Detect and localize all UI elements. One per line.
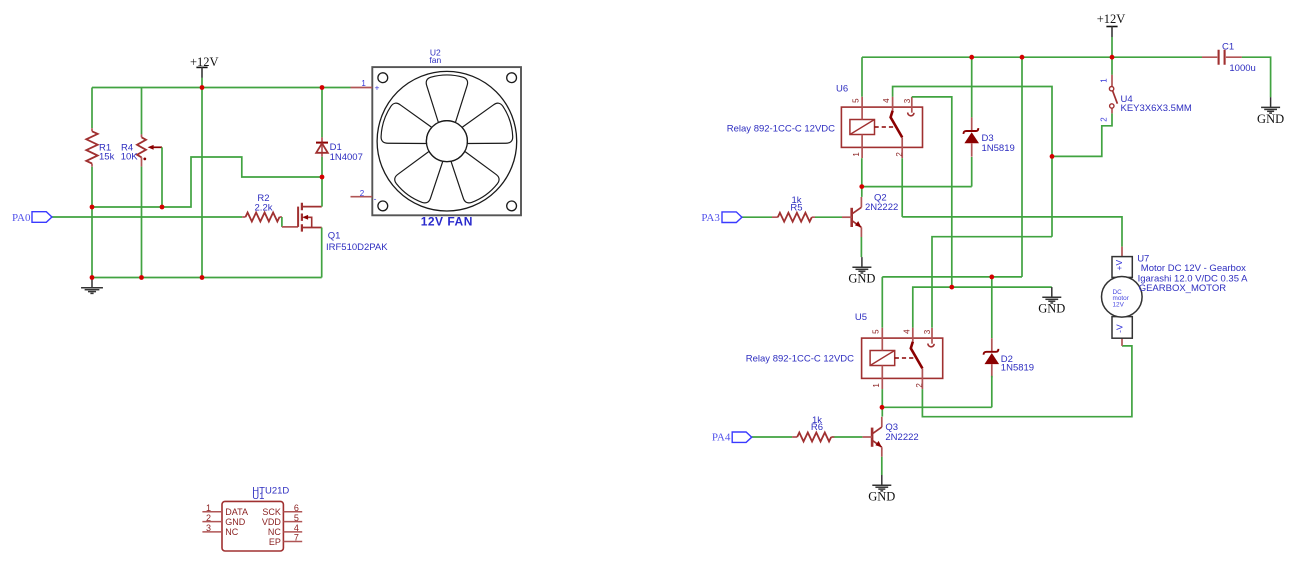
svg-text:PA3: PA3 [701,212,720,224]
ground [81,278,103,294]
junction [320,175,325,180]
wire [815,216,842,218]
wire [861,158,863,197]
wire [141,88,143,135]
wire [991,277,993,338]
svg-text:1N4007: 1N4007 [330,152,363,163]
svg-text:3: 3 [923,329,932,334]
svg-text:1: 1 [852,152,861,157]
label U6 value [727,124,835,135]
svg-text:1: 1 [1099,78,1108,83]
wire [1111,37,1113,75]
junction [90,205,95,210]
net flag PA3 [701,212,742,224]
wire [321,157,323,207]
label U5 [855,312,867,323]
wire [321,228,323,278]
svg-text:5: 5 [294,513,299,523]
svg-text:4: 4 [882,98,891,103]
svg-text:2: 2 [895,152,904,157]
junction [989,275,994,280]
junction [969,55,974,60]
wire [991,376,993,408]
junction [90,275,95,280]
junction [949,285,954,290]
svg-text:3: 3 [206,523,211,533]
svg-text:Q1: Q1 [328,231,341,242]
diode D2 [984,338,1034,377]
svg-text:VDD: VDD [262,517,282,527]
resistor R5 [772,195,815,222]
relay U5 [862,328,943,389]
svg-text:6: 6 [294,503,299,513]
svg-text:PA0: PA0 [12,212,31,224]
svg-text:R5: R5 [790,202,802,213]
svg-text:-V: -V [1115,324,1125,333]
potentiometer R4 [121,134,162,166]
label U6 [836,84,848,95]
wire [913,287,1052,328]
svg-text:2N2222: 2N2222 [885,432,918,443]
junction [160,205,165,210]
svg-text:GEARBOX_MOTOR: GEARBOX_MOTOR [1139,283,1227,294]
svg-text:15k: 15k [99,152,115,163]
wire [281,217,283,227]
wire [932,237,1052,328]
wire [752,436,792,438]
power +12V [190,55,219,78]
svg-text:5: 5 [851,98,860,103]
svg-text:+12V: +12V [1097,12,1126,26]
diode D3 [963,117,1014,156]
wire [901,158,903,217]
svg-text:+: + [375,82,380,92]
svg-text:GND: GND [848,272,875,286]
svg-text:Motor DC 12V - Gearbox: Motor DC 12V - Gearbox [1141,263,1246,274]
junction [880,405,885,410]
svg-text:7: 7 [294,533,299,543]
wire [862,186,972,188]
svg-text:U1: U1 [252,491,264,502]
svg-text:KEY3X6X3.5MM: KEY3X6X3.5MM [1121,103,1192,114]
svg-text:C1: C1 [1222,42,1234,53]
wire [91,167,93,278]
resistor R1 [86,128,114,167]
svg-text:fan: fan [429,55,441,65]
junction [320,85,325,90]
wire [893,87,1052,237]
wire [971,157,973,187]
svg-text:NC: NC [225,527,238,537]
svg-text:GND: GND [868,490,895,504]
ground GND (C1) [1261,97,1280,113]
net flag PA0 [12,212,52,224]
wire [1052,113,1112,156]
wire [92,87,351,89]
svg-text:2: 2 [206,513,211,523]
wire [881,389,883,417]
wire [881,277,883,328]
svg-text:1N5819: 1N5819 [982,143,1015,154]
label U5 value [746,353,854,364]
junction [200,85,205,90]
transistor Q1 [282,203,388,253]
motor U7 [1102,247,1249,346]
svg-text:PA4: PA4 [712,432,731,444]
wire [881,457,883,475]
wire [971,57,973,117]
svg-text:R6: R6 [811,422,823,433]
wire [860,237,862,257]
svg-text:GND: GND [225,517,246,527]
svg-text:2: 2 [915,383,924,388]
junction [1020,55,1025,60]
svg-text:IRF510D2PAK: IRF510D2PAK [326,242,388,253]
wire [91,88,93,129]
svg-text:-: - [374,193,377,203]
ground GND (Q2) [852,257,871,273]
svg-text:2: 2 [360,189,365,198]
svg-text:NC: NC [268,527,281,537]
svg-text:GND: GND [1038,302,1065,316]
IC U1 HTU21D [202,485,302,551]
svg-text:EP: EP [269,537,281,547]
wire [92,277,322,279]
junction [200,275,205,280]
wire [832,436,862,438]
svg-text:1: 1 [872,383,881,388]
wire [922,346,1132,417]
switch U4 [1099,75,1192,122]
wire [882,276,1022,278]
svg-text:SCK: SCK [262,507,281,517]
wire [92,157,322,207]
wire [882,406,992,408]
transistor Q2 [842,192,898,237]
wire [141,167,143,278]
svg-text:4: 4 [294,523,299,533]
relay U6 [841,97,922,158]
junction [139,275,144,280]
ground GND (Q3) [872,475,891,491]
svg-text:+V: +V [1114,260,1124,271]
wire [201,78,203,278]
wire [1242,57,1271,97]
svg-text:Relay 892-1CC-C 12VDC: Relay 892-1CC-C 12VDC [727,124,835,135]
svg-text:10K: 10K [121,152,139,163]
svg-text:DATA: DATA [225,507,248,517]
svg-text:U6: U6 [836,84,848,95]
wire [861,57,863,96]
wire [161,147,163,207]
svg-text:12V: 12V [1113,302,1125,309]
wire [52,216,242,218]
wire [1021,57,1023,277]
junction [1050,154,1055,159]
svg-text:1: 1 [361,79,366,88]
svg-text:3: 3 [903,98,912,103]
svg-text:Relay 892-1CC-C 12VDC: Relay 892-1CC-C 12VDC [746,353,854,364]
wire [912,97,952,287]
svg-text:GND: GND [1257,112,1284,126]
svg-text:1000u: 1000u [1229,63,1255,74]
svg-text:2.2k: 2.2k [255,203,273,214]
power +12V (right) [1097,12,1126,37]
junction [859,184,864,189]
ground GND (mid) [1042,287,1061,303]
wire [742,216,772,218]
net flag PA4 [712,432,752,444]
capacitor C1 [1202,42,1256,74]
wire [862,56,1202,58]
svg-text:2N2222: 2N2222 [865,202,898,213]
svg-text:12V FAN: 12V FAN [421,215,473,229]
wire [321,88,323,138]
svg-text:5: 5 [872,329,881,334]
svg-text:4: 4 [902,329,911,334]
resistor R6 [792,415,834,442]
svg-text:1N5819: 1N5819 [1001,362,1034,373]
svg-text:1: 1 [206,503,211,513]
diode D1 [316,137,363,162]
svg-text:2: 2 [1099,117,1108,122]
junction [1110,55,1115,60]
transistor Q3 [862,417,918,457]
resistor R2 [242,193,282,221]
svg-text:U5: U5 [855,312,867,323]
wire [902,217,1122,247]
